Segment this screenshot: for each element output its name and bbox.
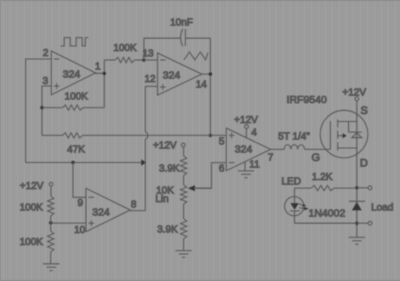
ground (pot chain) xyxy=(175,251,192,258)
wire: pin 5 lead xyxy=(210,134,226,136)
svg-text:Load: Load xyxy=(371,203,393,214)
wire: vertical pin12 / Vref / pin8 with hop over 47K wire xyxy=(144,86,146,210)
resistor R1 100K (U1A feedback) xyxy=(42,92,104,111)
node: junction dot pin 9 branch xyxy=(71,161,74,164)
ground (divider) xyxy=(43,264,60,271)
svg-text:2: 2 xyxy=(43,48,49,59)
wire: pin 2 lead, left rail down to Vref rail xyxy=(26,59,52,163)
wire: terminal to R6 xyxy=(183,147,185,156)
square wave symbol xyxy=(61,38,89,46)
svg-text:47K: 47K xyxy=(67,145,85,156)
svg-text:G: G xyxy=(312,152,321,164)
wire: U1D output node vertical xyxy=(202,38,211,135)
wire: pot to R8 xyxy=(183,204,185,218)
wire: terminal to R4 xyxy=(50,186,52,196)
wire: to load terminal - xyxy=(357,222,368,224)
op-amp U1B (324, pins 5,6,7) xyxy=(226,128,270,171)
svg-text:100K: 100K xyxy=(113,43,137,54)
svg-text:+12V: +12V xyxy=(342,87,366,98)
resistor R9 1.2K (LED series) xyxy=(295,172,357,191)
svg-text:11: 11 xyxy=(249,160,260,171)
op-amp U1A (324, pins 2,3,1) xyxy=(51,51,95,95)
wire: pin 13 lead xyxy=(144,59,158,61)
svg-text:+12V: +12V xyxy=(234,115,258,126)
ground (load) xyxy=(349,237,366,244)
resistor R2 100K (integrator input) xyxy=(104,43,144,63)
junction arrow at Vref rail / pin12-pin8 vertical xyxy=(141,159,146,165)
wire: Vref rail (pins 2,9,12,8 node) xyxy=(26,162,142,164)
wire: source-drain vertical xyxy=(356,101,358,238)
wire: pin 11 stub xyxy=(244,162,246,171)
resistor R8 3.9K xyxy=(157,219,186,239)
svg-text:9: 9 xyxy=(78,198,84,209)
wire: pin 1 output node vertical xyxy=(94,60,104,108)
svg-text:6: 6 xyxy=(219,163,225,174)
op-amp U1D (324, pins 13,12,14) xyxy=(158,53,202,95)
svg-text:12: 12 xyxy=(144,74,156,85)
+12V supply terminal (U1B pin 4) xyxy=(245,125,249,129)
capacitor C1 10nF (integrator feedback) xyxy=(144,17,211,60)
svg-text:7: 7 xyxy=(268,153,274,164)
wire: pin 4 stub xyxy=(245,129,247,138)
svg-text:5T 1/4": 5T 1/4" xyxy=(278,131,310,142)
wire: R6 to pot xyxy=(183,176,185,185)
svg-text:100K: 100K xyxy=(65,92,89,103)
svg-text:+12V: +12V xyxy=(20,181,44,192)
diode D2 1N4002 (flyback) xyxy=(349,201,365,210)
node: junction dot pin 13 xyxy=(142,58,145,61)
resistor R5 100K (divider bottom) xyxy=(20,231,54,252)
+12V supply terminal (pot chain) xyxy=(181,143,185,147)
svg-text:1N4002: 1N4002 xyxy=(309,207,346,219)
node: junction dot 47K / pin5 xyxy=(209,134,212,137)
svg-text:S: S xyxy=(361,105,368,117)
wire: LED cathode to load - node xyxy=(295,222,357,224)
LED D1 xyxy=(285,188,309,223)
svg-text:100K: 100K xyxy=(20,203,44,214)
wire: pin 8 output lead xyxy=(129,210,145,212)
svg-text:3: 3 xyxy=(43,76,49,87)
svg-text:10: 10 xyxy=(74,225,86,236)
load terminal - xyxy=(368,221,372,225)
resistor R4 100K (divider top) xyxy=(20,196,54,216)
wire hop (no connection) xyxy=(145,132,147,139)
wire: pin 3 lead down to feedback node xyxy=(42,86,51,135)
op-amp U1C (324, pins 9,10,8) xyxy=(86,188,130,231)
node: junction dot drain / R9 / load + xyxy=(355,186,358,189)
svg-text:IRF9540: IRF9540 xyxy=(287,94,327,106)
svg-text:+12V: +12V xyxy=(153,141,177,152)
+12V supply terminal (source) xyxy=(355,97,359,101)
potentiometer R7 10K Lin xyxy=(155,185,211,205)
transistor Q1 IRF9540 P-MOSFET xyxy=(320,110,368,158)
resistor R3 47K (triangle feedback) xyxy=(42,133,210,156)
svg-text:13: 13 xyxy=(142,49,154,60)
svg-text:1.2K: 1.2K xyxy=(312,172,333,183)
wire: pin 7 output lead xyxy=(271,148,285,150)
node: junction dot load - / LED return / ground xyxy=(355,222,358,225)
ground (U1B pin 11) xyxy=(238,171,254,178)
wire: pin 9 lead from Vref rail xyxy=(73,163,86,198)
svg-text:Lin: Lin xyxy=(155,194,168,205)
node: junction dot divider midpoint xyxy=(49,221,52,224)
svg-text:5: 5 xyxy=(219,137,225,148)
resistor R6 3.9K xyxy=(159,156,187,176)
svg-text:100K: 100K xyxy=(20,237,44,248)
wire: pin 10 lead from divider xyxy=(51,222,86,224)
wire: pin 12 lead xyxy=(145,85,157,87)
svg-text:14: 14 xyxy=(196,80,208,91)
svg-text:8: 8 xyxy=(131,200,137,211)
+12V supply terminal (divider) xyxy=(49,182,53,186)
svg-text:324: 324 xyxy=(235,144,253,156)
triangle wave symbol xyxy=(184,52,208,60)
svg-text:324: 324 xyxy=(92,206,110,218)
wire: to load terminal + xyxy=(357,187,368,189)
svg-text:3.9K: 3.9K xyxy=(157,225,178,236)
wire: R5 to ground xyxy=(50,252,52,264)
svg-text:4: 4 xyxy=(251,128,257,139)
svg-text:10nF: 10nF xyxy=(170,17,193,28)
inductor L1 5T 1/4" xyxy=(278,131,310,149)
wire: pin 6 lead to pot wiper xyxy=(196,163,226,189)
node: junction dot pin3/100K/47K xyxy=(40,106,43,109)
svg-text:3.9K: 3.9K xyxy=(159,163,180,174)
wire: R8 to ground xyxy=(183,239,185,251)
svg-text:LED: LED xyxy=(281,176,300,187)
node: junction dot pin 1 xyxy=(103,72,106,75)
wire: R4 to R5 xyxy=(50,216,52,232)
svg-text:D: D xyxy=(360,157,368,169)
svg-text:324: 324 xyxy=(163,70,181,82)
svg-text:324: 324 xyxy=(63,69,81,81)
load terminal + xyxy=(368,186,372,190)
node: junction dot pin 14 xyxy=(209,72,212,75)
wire: gate lead xyxy=(305,148,331,150)
svg-text:1: 1 xyxy=(95,61,101,72)
